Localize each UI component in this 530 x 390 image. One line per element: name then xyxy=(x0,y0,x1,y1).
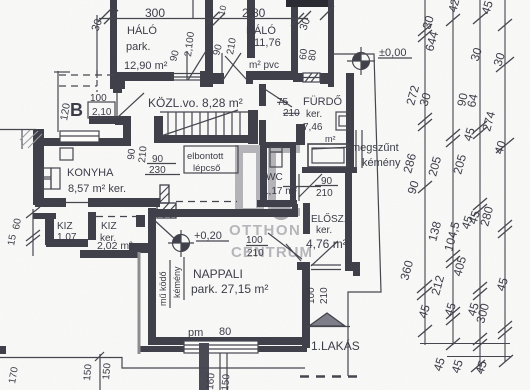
svg-text:230: 230 xyxy=(149,165,166,176)
svg-text:210: 210 xyxy=(316,188,333,199)
wall kiz2 south xyxy=(80,250,138,258)
wall bedroom1 west xyxy=(110,0,117,82)
wall bedroom2 east xyxy=(291,5,298,75)
svg-text:park. 27,15 m²: park. 27,15 m² xyxy=(191,282,268,296)
svg-text:150: 150 xyxy=(220,373,232,390)
svg-text:2,10: 2,10 xyxy=(92,107,112,118)
door bedroom mid swing1 xyxy=(188,51,206,80)
wall bedroom2 south xyxy=(246,71,293,80)
wall nappali west xyxy=(148,208,156,340)
wall right column xyxy=(328,0,334,87)
wall column stair end xyxy=(248,110,258,144)
below window lines xyxy=(219,353,221,390)
svg-text:300: 300 xyxy=(145,6,165,20)
konyha stove boxes xyxy=(42,168,51,177)
svg-text:ker.: ker. xyxy=(306,109,322,120)
wall corridor south stair bottom xyxy=(156,135,249,143)
svg-text:11,76: 11,76 xyxy=(254,37,281,49)
wall wc west xyxy=(260,142,267,202)
svg-text:ker.: ker. xyxy=(316,225,332,236)
wall door jambs mid xyxy=(200,71,213,87)
svg-text:+0,20: +0,20 xyxy=(194,230,222,242)
wall between bedrooms left xyxy=(205,0,213,78)
svg-text:100: 100 xyxy=(306,287,317,304)
wall elosz west upper xyxy=(303,203,310,234)
watermark logo C xyxy=(268,145,300,216)
window nappali south xyxy=(184,341,258,353)
svg-text:KONYHA: KONYHA xyxy=(67,167,114,179)
svg-text:90: 90 xyxy=(126,148,138,160)
svg-text:OTTHON: OTTHON xyxy=(229,222,301,239)
wall wc north xyxy=(260,142,294,148)
elbontott box xyxy=(184,146,238,173)
dim chains right xyxy=(420,0,512,372)
watermark logo O xyxy=(235,145,264,216)
svg-text:210: 210 xyxy=(247,248,264,259)
wall wc east xyxy=(290,142,296,202)
wc cistern xyxy=(270,147,282,167)
konyha door threshold xyxy=(66,202,88,204)
svg-text:KIZ: KIZ xyxy=(101,221,117,232)
svg-text:park.: park. xyxy=(126,41,150,53)
boiler furdo xyxy=(336,112,350,130)
stair box xyxy=(160,111,249,113)
dashed demolished mid xyxy=(176,201,237,203)
entrance triangle xyxy=(309,313,345,326)
svg-text:7,46: 7,46 xyxy=(303,122,323,133)
svg-text:1,07: 1,07 xyxy=(57,232,77,243)
svg-text:pm: pm xyxy=(188,327,203,339)
svg-text:KIZ: KIZ xyxy=(57,221,73,232)
wall nappali north xyxy=(150,209,298,217)
svg-text:KÖZL.vo. 8,28 m²: KÖZL.vo. 8,28 m² xyxy=(148,96,243,110)
svg-text:160: 160 xyxy=(205,372,217,390)
svg-text:100: 100 xyxy=(246,235,263,246)
kemeny double lines xyxy=(355,130,357,168)
svg-text:kémény: kémény xyxy=(172,266,182,298)
left dim 15/60 xyxy=(32,209,34,256)
door furdo swing xyxy=(260,86,292,107)
door swing nappali nw xyxy=(153,219,176,240)
pillar below window xyxy=(199,343,209,390)
underline mukodo kemeny xyxy=(169,260,171,308)
wall top dark bar xyxy=(286,0,331,7)
svg-text:HÁLÓ: HÁLÓ xyxy=(127,24,157,37)
svg-text:150: 150 xyxy=(82,363,94,381)
door bedroom2 swing xyxy=(225,56,247,80)
WALLS xyxy=(0,0,360,390)
svg-text:megszűnt: megszűnt xyxy=(351,142,399,154)
wall furdo east xyxy=(346,73,354,172)
svg-text:2,02 m²: 2,02 m² xyxy=(97,240,133,252)
svg-text:75: 75 xyxy=(277,97,289,108)
wall konyha south xyxy=(35,198,66,207)
svg-text:4,76 m²: 4,76 m² xyxy=(306,237,347,251)
wall kiz1 south xyxy=(46,239,88,247)
wc door xyxy=(298,174,300,201)
wall nappali south xyxy=(148,337,307,345)
door bedroom mid swing2 xyxy=(223,53,241,80)
chimney hatched konyha xyxy=(157,185,176,218)
svg-text:kémény: kémény xyxy=(362,157,401,169)
line plus000 xyxy=(378,57,412,59)
wall elosz west corner xyxy=(297,262,310,270)
door elosz swings xyxy=(286,244,301,261)
svg-text:±0,00: ±0,00 xyxy=(379,47,406,59)
svg-text:90: 90 xyxy=(321,176,333,187)
wall konyha west xyxy=(33,129,44,205)
wall kiz2 east upper xyxy=(136,215,145,227)
chain ticks xyxy=(417,12,514,372)
window bedroom2 east wall xyxy=(303,73,320,82)
svg-text:HÁLÓ: HÁLÓ xyxy=(246,24,276,37)
wall lobby east of furdo xyxy=(296,124,305,145)
svg-text:lépcső: lépcső xyxy=(193,163,220,174)
left corner edge line xyxy=(21,130,23,149)
svg-text:210: 210 xyxy=(283,108,300,119)
box 210 xyxy=(88,102,115,118)
svg-text:2,80: 2,80 xyxy=(242,6,266,20)
door corridor west xyxy=(116,92,118,118)
wall under tub xyxy=(302,167,357,173)
wall corridor west jamb xyxy=(113,84,122,93)
bottom left step line xyxy=(0,358,305,369)
svg-text:80: 80 xyxy=(307,49,319,61)
WATERMARK xyxy=(229,145,313,261)
svg-text:WC: WC xyxy=(266,172,283,183)
benchmark top xyxy=(347,47,375,75)
svg-text:12,90 m²: 12,90 m² xyxy=(124,60,168,72)
kemeny arrow xyxy=(312,147,352,149)
wall under window bed2 xyxy=(293,73,303,82)
wall kiz1 west xyxy=(45,213,54,245)
window konyha north xyxy=(60,131,99,142)
svg-text:90: 90 xyxy=(152,154,164,165)
wall furdo west lower xyxy=(259,120,266,145)
door nappali east swing xyxy=(268,233,302,259)
watermark logo dot xyxy=(271,200,291,220)
svg-text:m²: m² xyxy=(325,134,336,144)
window bedroom1 south xyxy=(172,74,203,81)
gray boundary line xyxy=(138,252,141,354)
svg-text:mű ködő: mű ködő xyxy=(158,271,168,306)
wall stair left cap xyxy=(154,116,163,143)
svg-text:m² pvc: m² pvc xyxy=(249,60,279,71)
line left upper xyxy=(57,71,59,132)
wall lobby east xyxy=(123,117,131,141)
svg-text:100: 100 xyxy=(90,93,107,104)
hatch konyha west corner xyxy=(20,130,42,148)
benchmark nappali xyxy=(168,230,194,257)
wall nappali east lower xyxy=(302,268,310,348)
wall wc south xyxy=(257,200,297,207)
dim line top 300/280 xyxy=(99,18,308,20)
wall kiz2 east lower corner xyxy=(129,243,151,253)
svg-text:ELŐSZ.: ELŐSZ. xyxy=(311,211,347,225)
tub xyxy=(308,144,348,167)
wall kiz1 east xyxy=(88,212,96,240)
wall elosz east xyxy=(345,171,352,265)
svg-text:B: B xyxy=(70,100,83,120)
wall stub left edge bottom xyxy=(0,346,6,354)
wall bedroom1 south xyxy=(113,72,174,81)
wall lobby top xyxy=(89,116,131,124)
left boundary line xyxy=(0,129,36,131)
wall furdo west upper xyxy=(259,84,266,106)
chain labels xyxy=(397,0,511,376)
svg-text:1.LAKÁS: 1.LAKÁS xyxy=(311,338,360,353)
dashes bottom right xyxy=(300,375,360,378)
wall between bedrooms right / bedroom2 west xyxy=(247,0,255,58)
dim 90 230 under stairs xyxy=(147,163,176,165)
svg-text:1,17 m²: 1,17 m² xyxy=(263,186,298,197)
svg-text:210: 210 xyxy=(319,287,330,304)
line plus020 xyxy=(196,240,229,242)
outer boundary right xyxy=(333,54,381,376)
wall konyha north xyxy=(38,138,131,146)
svg-text:150: 150 xyxy=(101,362,113,380)
konyha sink box xyxy=(60,148,73,160)
dashed demolished top-left xyxy=(59,74,118,76)
svg-text:8,57 m² ker.: 8,57 m² ker. xyxy=(68,183,126,195)
svg-text:80: 80 xyxy=(219,326,231,338)
stair diagonal xyxy=(161,110,238,136)
svg-text:NAPPALI: NAPPALI xyxy=(193,267,243,281)
svg-text:elbontott: elbontott xyxy=(187,151,224,162)
svg-text:FÜRDŐ: FÜRDŐ xyxy=(303,94,343,108)
svg-text:210: 210 xyxy=(137,145,149,163)
